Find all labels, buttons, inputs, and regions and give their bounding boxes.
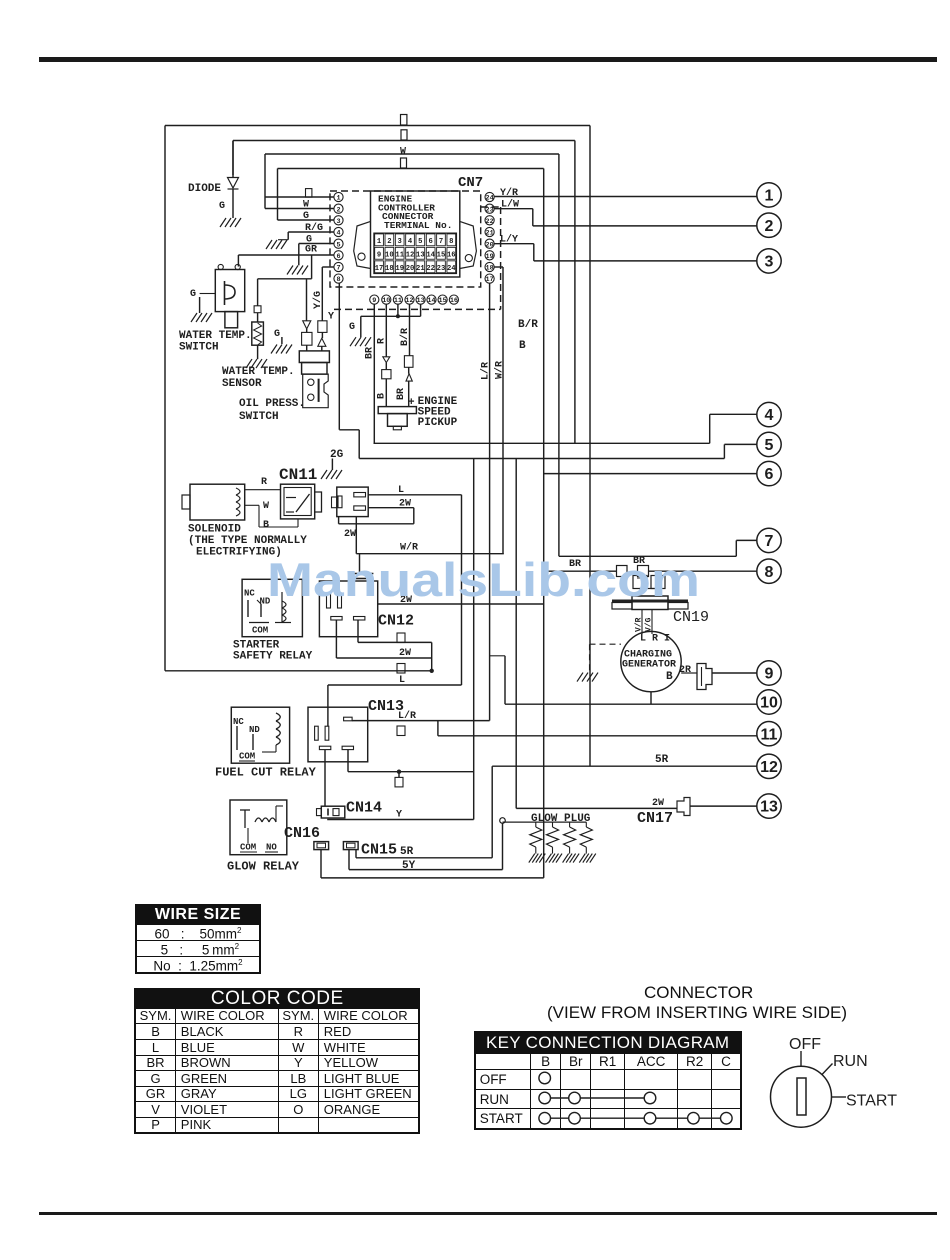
- svg-text:L/Y: L/Y: [500, 234, 518, 246]
- svg-text:W: W: [303, 200, 309, 211]
- svg-text:8: 8: [336, 276, 340, 284]
- svg-text:B: B: [263, 520, 269, 531]
- svg-text:5R: 5R: [655, 754, 669, 766]
- svg-text:SWITCH: SWITCH: [179, 342, 219, 354]
- svg-text:23: 23: [486, 206, 494, 214]
- svg-text:Y/R: Y/R: [500, 187, 518, 199]
- svg-text:7: 7: [336, 265, 340, 273]
- svg-text:7: 7: [439, 238, 443, 246]
- svg-text:13: 13: [416, 251, 425, 259]
- svg-text:11: 11: [761, 726, 778, 743]
- svg-text:4: 4: [408, 238, 413, 246]
- svg-text:9: 9: [372, 297, 376, 305]
- svg-text:10: 10: [760, 695, 778, 712]
- svg-text:2W: 2W: [652, 798, 664, 809]
- svg-text:7: 7: [765, 533, 774, 550]
- svg-text:B/R: B/R: [518, 319, 538, 331]
- svg-text:G: G: [219, 201, 225, 212]
- svg-text:12: 12: [406, 251, 415, 259]
- svg-text:10: 10: [385, 251, 394, 259]
- svg-text:12: 12: [760, 759, 778, 776]
- svg-text:TERMINAL No.: TERMINAL No.: [384, 220, 452, 231]
- svg-text:V/G: V/G: [645, 617, 654, 632]
- svg-text:COM: COM: [252, 626, 268, 636]
- svg-text:3: 3: [398, 238, 402, 246]
- svg-text:W/R: W/R: [400, 542, 418, 554]
- svg-text:SOLENOID: SOLENOID: [188, 524, 241, 536]
- svg-text:6: 6: [765, 466, 774, 483]
- svg-text:6: 6: [428, 238, 432, 246]
- svg-text:9: 9: [765, 666, 774, 683]
- svg-text:R: R: [261, 477, 267, 488]
- svg-text:5: 5: [765, 437, 774, 454]
- svg-text:3: 3: [336, 218, 340, 226]
- svg-text:G: G: [349, 322, 355, 333]
- svg-text:19: 19: [395, 265, 404, 273]
- svg-text:W: W: [263, 501, 269, 512]
- svg-text:G: G: [190, 289, 196, 300]
- svg-text:R: R: [377, 338, 388, 344]
- svg-text:COM: COM: [240, 843, 256, 853]
- svg-text:22: 22: [426, 265, 435, 273]
- svg-text:15: 15: [439, 297, 447, 305]
- svg-text:17: 17: [486, 276, 494, 284]
- svg-text:CN11: CN11: [279, 466, 317, 484]
- svg-text:PICKUP: PICKUP: [418, 417, 458, 429]
- svg-text:CN17: CN17: [637, 810, 673, 827]
- svg-text:21: 21: [486, 230, 494, 238]
- svg-text:8: 8: [765, 564, 774, 581]
- svg-text:WATER TEMP.: WATER TEMP.: [179, 330, 252, 342]
- svg-text:11: 11: [395, 251, 404, 259]
- svg-text:2: 2: [336, 206, 340, 214]
- svg-text:15: 15: [437, 251, 446, 259]
- svg-text:FUEL CUT RELAY: FUEL CUT RELAY: [215, 766, 317, 780]
- svg-text:5: 5: [336, 241, 340, 249]
- svg-text:WATER TEMP.: WATER TEMP.: [222, 366, 295, 378]
- svg-text:4: 4: [765, 407, 774, 424]
- svg-text:SWITCH: SWITCH: [239, 411, 279, 423]
- svg-text:2W: 2W: [399, 499, 411, 510]
- svg-text:24: 24: [486, 195, 494, 203]
- svg-text:NC: NC: [244, 589, 255, 599]
- svg-text:17: 17: [375, 265, 384, 273]
- svg-text:GLOW PLUG: GLOW PLUG: [531, 813, 591, 825]
- svg-text:CN19: CN19: [673, 609, 709, 626]
- svg-text:DIODE: DIODE: [188, 183, 221, 195]
- svg-text:2: 2: [765, 218, 774, 235]
- svg-text:21: 21: [416, 265, 425, 273]
- svg-text:19: 19: [486, 253, 494, 261]
- svg-text:GENERATOR: GENERATOR: [622, 660, 676, 671]
- svg-text:1: 1: [377, 238, 382, 246]
- svg-text:Y: Y: [396, 810, 402, 821]
- svg-text:1: 1: [765, 188, 774, 205]
- svg-text:2R: 2R: [679, 665, 691, 676]
- svg-text:20: 20: [486, 241, 494, 249]
- svg-text:NO: NO: [266, 843, 277, 853]
- svg-text:12: 12: [405, 297, 413, 305]
- svg-text:13: 13: [417, 297, 425, 305]
- svg-text:9: 9: [377, 251, 381, 259]
- svg-text:GR: GR: [305, 245, 317, 256]
- svg-text:16: 16: [450, 297, 458, 305]
- svg-text:+: +: [408, 397, 415, 409]
- svg-text:L: L: [398, 485, 404, 496]
- svg-text:14: 14: [427, 297, 435, 305]
- svg-text:R/G: R/G: [305, 222, 323, 234]
- svg-text:1: 1: [336, 195, 340, 203]
- svg-text:(THE TYPE NORMALLY: (THE TYPE NORMALLY: [188, 535, 307, 547]
- svg-text:GLOW RELAY: GLOW RELAY: [227, 860, 300, 874]
- svg-text:3: 3: [765, 254, 774, 271]
- svg-text:5Y: 5Y: [402, 860, 416, 872]
- svg-text:BR: BR: [396, 388, 407, 400]
- svg-text:SAFETY RELAY: SAFETY RELAY: [233, 651, 313, 663]
- svg-text:5: 5: [418, 238, 422, 246]
- svg-text:B: B: [377, 393, 388, 399]
- svg-text:8: 8: [449, 238, 453, 246]
- svg-text:Y/G: Y/G: [312, 291, 324, 309]
- svg-text:16: 16: [447, 251, 456, 259]
- svg-text:2: 2: [387, 238, 391, 246]
- svg-text:18: 18: [385, 265, 394, 273]
- svg-text:CN12: CN12: [378, 613, 414, 630]
- svg-text:13: 13: [760, 799, 778, 816]
- svg-text:L/W: L/W: [501, 199, 519, 211]
- svg-text:5R: 5R: [400, 846, 414, 858]
- svg-text:CN14: CN14: [346, 800, 382, 817]
- svg-text:23: 23: [437, 265, 446, 273]
- svg-text:W: W: [400, 147, 406, 158]
- svg-text:6: 6: [336, 253, 340, 261]
- svg-text:L/R: L/R: [398, 710, 416, 722]
- svg-text:CN7: CN7: [458, 175, 483, 191]
- svg-text:V/R: V/R: [635, 617, 644, 632]
- svg-text:B: B: [666, 671, 673, 683]
- svg-text:24: 24: [447, 265, 456, 273]
- svg-text:Y: Y: [328, 312, 334, 323]
- svg-text:CN15: CN15: [361, 842, 397, 859]
- svg-text:11: 11: [394, 297, 402, 305]
- svg-text:22: 22: [486, 218, 494, 226]
- svg-text:COM: COM: [239, 752, 255, 762]
- svg-text:L: L: [399, 675, 405, 686]
- svg-text:4: 4: [336, 230, 340, 238]
- svg-text:20: 20: [406, 265, 415, 273]
- svg-text:G: G: [274, 329, 280, 340]
- svg-text:CN16: CN16: [284, 825, 320, 842]
- svg-text:14: 14: [426, 251, 435, 259]
- svg-text:OIL PRESS.: OIL PRESS.: [239, 398, 305, 410]
- svg-text:NC: NC: [233, 717, 244, 727]
- svg-text:B: B: [519, 340, 526, 352]
- svg-text:2W: 2W: [344, 529, 356, 540]
- svg-text:10: 10: [382, 297, 390, 305]
- svg-text:ND: ND: [249, 725, 260, 735]
- svg-text:2W: 2W: [399, 648, 411, 659]
- svg-text:BR: BR: [365, 347, 376, 359]
- svg-text:G: G: [303, 211, 309, 222]
- svg-text:SENSOR: SENSOR: [222, 378, 262, 390]
- svg-text:18: 18: [486, 265, 494, 273]
- svg-text:B/R: B/R: [399, 328, 411, 346]
